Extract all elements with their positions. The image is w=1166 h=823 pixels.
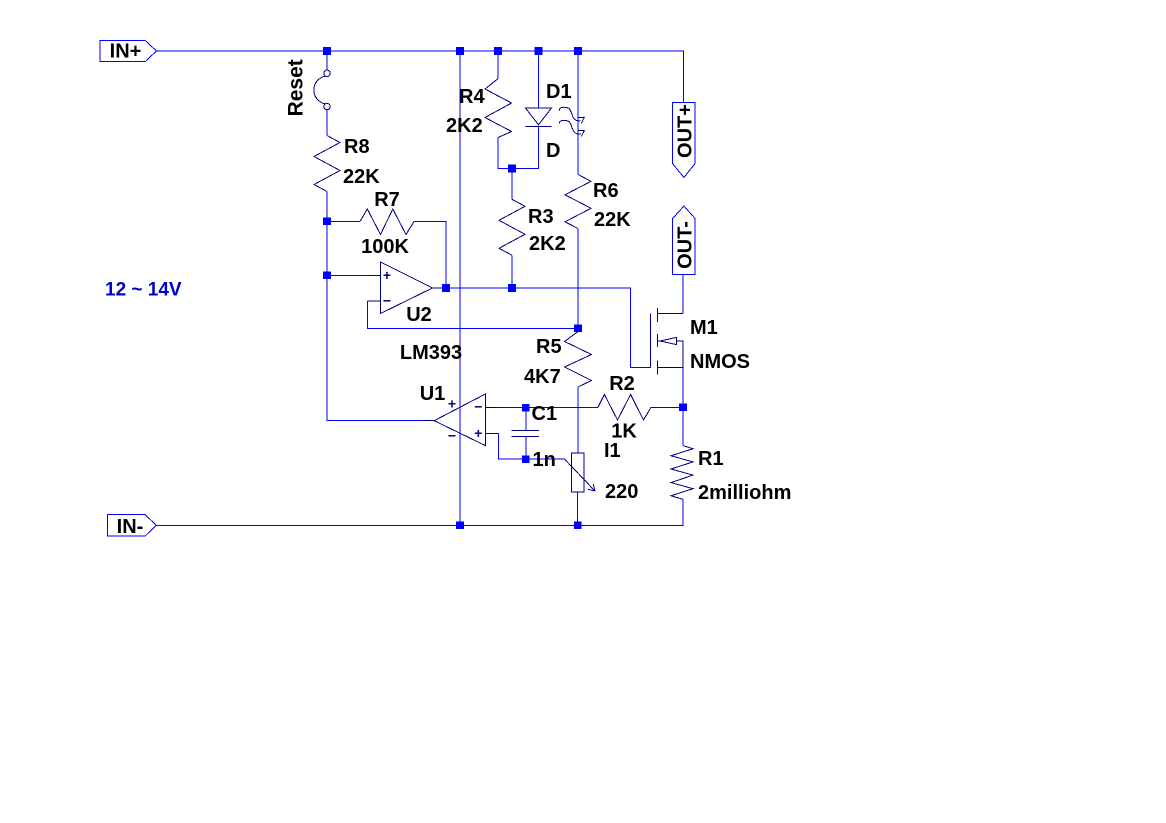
wire R6 top lead (577, 51, 579, 175)
svg-text:OUT-: OUT- (675, 221, 697, 269)
svg-text:NMOS: NMOS (690, 351, 750, 373)
svg-text:Reset: Reset (285, 59, 308, 116)
svg-text:M1: M1 (690, 317, 718, 339)
wire U2 minus feedback loop (367, 301, 578, 328)
svg-text:IN+: IN+ (110, 41, 142, 63)
wire R2 left lead (526, 406, 598, 408)
node junction R4 D1 R3 (508, 165, 516, 173)
resistor R4 (485, 79, 512, 138)
svg-text:R1: R1 (698, 448, 724, 470)
node junction U2 output (442, 284, 450, 292)
svg-text:R8: R8 (344, 136, 370, 158)
diode D1 LED (526, 108, 552, 127)
node junction R3 output wire (508, 284, 516, 292)
wire bottom rail IN- to R1 (156, 499, 683, 525)
wire U1 minus pin to C1 top junction (497, 406, 526, 408)
wire R7 left lead (327, 220, 360, 222)
svg-text:D: D (546, 140, 560, 162)
wire R3 top lead (511, 169, 513, 200)
node junction top rail x327 (323, 47, 331, 55)
svg-text:I1: I1 (604, 440, 621, 462)
wire R7 right lead down to U2 output (414, 222, 446, 289)
node junction R6 R5 feedback (574, 325, 582, 333)
node junction top rail x460 (456, 47, 464, 55)
wire reset to R8 (326, 110, 328, 136)
svg-text:4K7: 4K7 (524, 366, 561, 388)
wire R1 top lead (682, 407, 684, 445)
resistor R3 (499, 199, 525, 255)
svg-text:R2: R2 (609, 373, 635, 395)
node junction top rail x498 (494, 47, 502, 55)
LED light arrow 1 (559, 107, 580, 121)
svg-text:2K2: 2K2 (529, 233, 566, 255)
svg-text:OUT+: OUT+ (675, 104, 697, 158)
svg-text:R4: R4 (459, 86, 485, 108)
resistor R5 (565, 332, 592, 388)
wire U2 output to M1 gate (443, 288, 649, 367)
transistor M1 NMOS (649, 308, 684, 374)
svg-text:U1: U1 (420, 383, 446, 405)
svg-text:1n: 1n (533, 449, 556, 471)
svg-text:R6: R6 (593, 180, 619, 202)
svg-text:2milliohm: 2milliohm (698, 482, 791, 504)
wire OUT- to M1 drain (682, 274, 684, 313)
op-amp U2 (367, 262, 443, 314)
svg-text:R7: R7 (374, 189, 400, 211)
wire C1 bottom junction to I1 wiper (526, 458, 565, 460)
svg-text:+: + (383, 267, 391, 283)
svg-text:22K: 22K (343, 166, 380, 188)
wire R8 bottom lead (326, 192, 328, 222)
svg-text:−: − (448, 428, 456, 444)
svg-text:D1: D1 (546, 81, 572, 103)
node junction R8 R7 (323, 218, 331, 226)
wire U1 plus pin loop to C1 bottom junction (499, 433, 526, 459)
wire D1 anode lead (538, 51, 540, 108)
svg-text:100K: 100K (361, 236, 409, 258)
wire C1 top lead (525, 408, 527, 431)
wire left column and U1 output (327, 221, 434, 420)
wire R5 bottom lead (577, 387, 579, 453)
node junction top rail x538 (535, 47, 543, 55)
svg-text:22K: 22K (594, 209, 631, 231)
resistor R7 (360, 209, 414, 235)
svg-text:C1: C1 (532, 403, 558, 425)
resistor R2 (598, 395, 651, 421)
svg-text:R5: R5 (536, 336, 562, 358)
wire R4 bottom lead and D1 cathode lead (498, 127, 539, 169)
capacitor C1 (512, 430, 540, 436)
wire U2 plus input (327, 274, 369, 276)
svg-text:+: + (474, 425, 482, 441)
resistor R6 (565, 175, 591, 229)
wire I1 bottom lead (577, 492, 579, 525)
wire R4 top lead (497, 51, 499, 79)
connector tag OUT+ (673, 102, 695, 177)
svg-text:12 ~ 14V: 12 ~ 14V (105, 280, 182, 301)
node junction bottom rail x578 (574, 522, 582, 530)
resistor R1 (671, 446, 693, 500)
wire main vertical x460 (459, 51, 461, 525)
node junction C1 top (522, 404, 530, 412)
potentiometer I1 (565, 453, 595, 492)
svg-text:+: + (448, 395, 456, 411)
LED light arrow 2 (559, 120, 580, 134)
wire R2 right lead (651, 406, 683, 408)
connector tag IN- (108, 515, 157, 537)
node junction top rail x578 (574, 47, 582, 55)
wire C1 bottom lead (525, 436, 527, 459)
svg-text:R3: R3 (528, 206, 554, 228)
svg-text:220: 220 (605, 481, 638, 503)
node junction U2 plus input (323, 272, 331, 280)
svg-text:LM393: LM393 (400, 342, 462, 364)
wire R3 bottom lead (511, 255, 513, 288)
node junction M1 source R2 R1 (679, 404, 687, 412)
node junction C1 bottom (522, 455, 530, 463)
wire top rail IN+ to OUT+ (157, 51, 684, 102)
wire R6 bottom lead (577, 229, 579, 329)
connector tag IN+ (100, 40, 157, 61)
connector tag OUT- (673, 206, 695, 274)
svg-text:−: − (474, 398, 482, 414)
node junction bottom rail x460 (456, 522, 464, 530)
wire M1 source down to R2 junction (682, 367, 684, 407)
svg-text:−: − (383, 293, 391, 309)
svg-text:U2: U2 (406, 304, 432, 326)
resistor R8 (314, 136, 340, 192)
wire reset branch top (326, 51, 328, 70)
switch Reset (314, 70, 330, 110)
svg-text:IN-: IN- (117, 516, 144, 538)
svg-text:2K2: 2K2 (446, 115, 483, 137)
op-amp U1 (424, 394, 499, 446)
